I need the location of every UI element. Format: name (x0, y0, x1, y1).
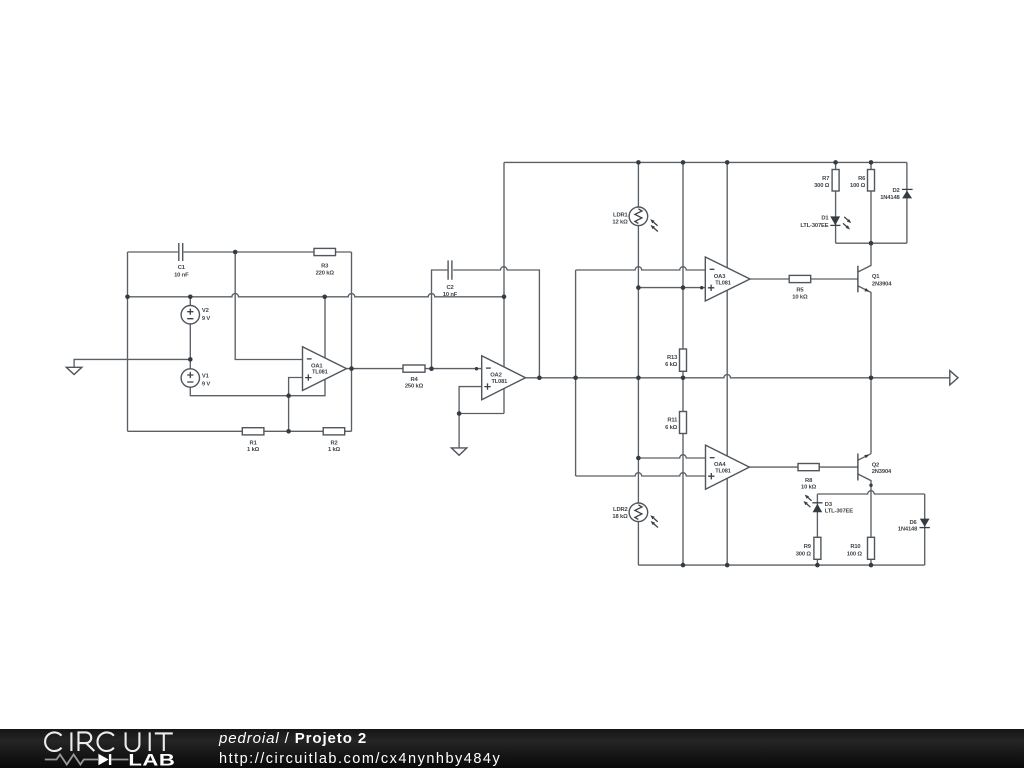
wire y270 to OA3 minus (576, 267, 706, 270)
resistor R13 (665, 349, 686, 371)
resistor R10 (847, 537, 875, 559)
wire y476 to OA4 plus (576, 473, 706, 476)
svg-text:R1: R1 (250, 440, 258, 446)
wire y287.6 to OA3 plus (638, 287, 705, 289)
wire D6 column x924.7 (924, 494, 926, 565)
resistor R3 (314, 248, 336, 276)
wire D1-D2 bottom y243.2 (836, 242, 907, 244)
svg-text:D1: D1 (821, 216, 829, 222)
svg-text:300 Ω: 300 Ω (796, 552, 812, 558)
wire OA4 output (749, 466, 858, 468)
wire OA3 output (750, 278, 858, 280)
svg-text:OA4: OA4 (714, 462, 726, 468)
output arrow (950, 371, 958, 385)
wire D2 column x906.9 (906, 162, 908, 243)
wire V2-V1 chain to OA1 node (190, 297, 325, 396)
svg-text:1N4148: 1N4148 (898, 527, 918, 533)
resistor R4 (403, 365, 425, 390)
wire top rail y162.4 (504, 161, 907, 163)
wire bottom R1-R2 run (128, 430, 352, 432)
wire right vertical x351.5 (351, 252, 353, 431)
resistor R9 (796, 537, 821, 559)
wire D3-R9 column x817.4 (816, 494, 818, 565)
wire x575.6 vertical (575, 270, 577, 476)
wire OA2 plus loop (459, 387, 504, 448)
svg-text:OA3: OA3 (714, 274, 726, 280)
svg-text:R5: R5 (796, 288, 804, 294)
svg-text:V2: V2 (202, 308, 209, 314)
wire top loop with C1/R3 (128, 251, 352, 253)
photoresistor LDR1 (612, 207, 657, 232)
voltage source V2 (181, 306, 210, 324)
op-amp OA4 (706, 445, 750, 489)
svg-text:Q2: Q2 (872, 462, 879, 468)
wire OA1 plus loop (289, 378, 303, 432)
ground (left) (66, 367, 82, 374)
wire OA1 minus input (235, 252, 302, 360)
svg-text:6 kΩ: 6 kΩ (665, 362, 678, 368)
wire C2 left tap (432, 270, 448, 369)
svg-text:9 V: 9 V (202, 381, 211, 387)
svg-text:D6: D6 (909, 520, 917, 526)
wire mid horizontal y296.8 (128, 294, 505, 297)
svg-text:100 Ω: 100 Ω (847, 552, 863, 558)
transistor Q1 (858, 266, 892, 293)
svg-text:C2: C2 (446, 285, 453, 291)
resistor R11 (665, 412, 686, 434)
wire OA1 output to OA2 minus (347, 368, 482, 370)
capacitor C1 (174, 243, 189, 279)
svg-text:R9: R9 (804, 544, 812, 550)
svg-text:6 kΩ: 6 kΩ (665, 425, 678, 431)
diode D2 (880, 188, 912, 201)
svg-text:10 nF: 10 nF (443, 292, 458, 298)
svg-text:LTL-307EE: LTL-307EE (825, 508, 853, 514)
wire C2 right feedback (453, 267, 539, 378)
wire x727.2 vertical (726, 162, 728, 565)
svg-text:R8: R8 (805, 478, 813, 484)
LED D1 (800, 216, 851, 230)
wire x504 vertical (503, 162, 505, 413)
svg-text:10 kΩ: 10 kΩ (792, 294, 808, 300)
svg-text:TL081: TL081 (715, 468, 731, 474)
resistor R7 (814, 170, 839, 192)
svg-text:12 kΩ: 12 kΩ (612, 220, 628, 226)
svg-text:D2: D2 (892, 188, 899, 194)
svg-text:18 kΩ: 18 kΩ (612, 514, 628, 520)
svg-text:LAB: LAB (128, 751, 175, 768)
wire output rail y377.8 (526, 375, 950, 378)
wire R7-D1 column x835.6 (835, 162, 837, 243)
op-amp OA3 (705, 257, 750, 301)
op-amp OA1 (303, 347, 347, 391)
wire LDR column x638.4 (637, 162, 639, 565)
svg-text:220 kΩ: 220 kΩ (316, 271, 335, 277)
svg-text:TL081: TL081 (492, 379, 508, 385)
wire Q1 collector (858, 243, 871, 272)
wire Q2 collector (858, 474, 871, 565)
svg-text:C1: C1 (178, 265, 186, 271)
wire R13-R11 column x683 (682, 162, 684, 565)
svg-text:TL081: TL081 (312, 370, 328, 376)
resistor R1 (242, 428, 264, 454)
svg-text:9 V: 9 V (202, 316, 211, 322)
wire bottom rail y565.1 (638, 564, 924, 566)
svg-text:2N3904: 2N3904 (872, 281, 892, 287)
svg-text:D3: D3 (825, 502, 833, 508)
svg-text:R3: R3 (321, 263, 329, 269)
wire Q2 emitter (858, 378, 871, 460)
svg-text:OA2: OA2 (490, 373, 501, 379)
resistor R8 (798, 464, 819, 491)
svg-text:10 nF: 10 nF (174, 273, 189, 279)
svg-text:LDR1: LDR1 (613, 212, 628, 218)
svg-text:R4: R4 (410, 377, 418, 383)
wire y458 to OA4 minus (638, 455, 705, 458)
svg-text:R6: R6 (858, 176, 866, 182)
wire y494 D3-D6 top (817, 491, 924, 494)
svg-text:R13: R13 (667, 355, 678, 361)
wire ground1 run (74, 359, 190, 367)
svg-text:V1: V1 (202, 373, 210, 379)
svg-text:R11: R11 (667, 418, 678, 424)
LED D3 (803, 495, 853, 515)
svg-text:250 kΩ: 250 kΩ (405, 384, 424, 390)
svg-text:LDR2: LDR2 (613, 507, 628, 513)
wire left vertical x127.5 (127, 252, 129, 431)
svg-text:1 kΩ: 1 kΩ (247, 447, 260, 453)
svg-text:2N3904: 2N3904 (872, 469, 892, 475)
svg-text:300 Ω: 300 Ω (814, 183, 830, 189)
svg-text:1 kΩ: 1 kΩ (328, 447, 341, 453)
svg-text:Q1: Q1 (872, 274, 880, 280)
photoresistor LDR2 (612, 503, 658, 528)
svg-text:1N4148: 1N4148 (880, 195, 900, 201)
wire Q1 emitter (858, 286, 871, 378)
svg-text:R2: R2 (330, 440, 337, 446)
svg-text:100 Ω: 100 Ω (850, 183, 866, 189)
diode D6 (898, 519, 930, 533)
svg-text:R10: R10 (850, 544, 860, 550)
voltage source V1 (181, 369, 210, 388)
capacitor C2 (443, 260, 458, 298)
ground (OA2 plus) (451, 448, 466, 455)
svg-text:TL081: TL081 (715, 280, 731, 286)
svg-text:LTL-307EE: LTL-307EE (800, 223, 828, 229)
svg-text:R7: R7 (822, 176, 829, 182)
resistor R6 (850, 170, 874, 192)
wire R6 column (870, 162, 872, 243)
resistor R2 (323, 428, 345, 454)
svg-text:OA1: OA1 (311, 363, 323, 369)
resistor R5 (789, 275, 811, 300)
transistor Q2 (858, 454, 892, 481)
svg-text:10 kΩ: 10 kΩ (801, 485, 817, 491)
op-amp OA2 (482, 356, 526, 400)
